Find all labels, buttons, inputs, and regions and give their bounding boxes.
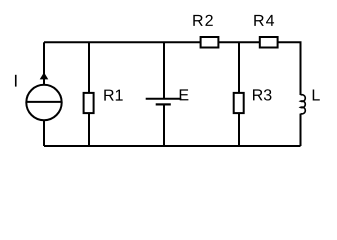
inductor L bbox=[301, 95, 306, 114]
wire: left branch, current source to bottom rail bbox=[43, 120, 45, 146]
wire: R1 branch, R1 to bottom rail bbox=[88, 114, 90, 147]
wire: bottom rail bbox=[44, 145, 301, 147]
wire: R1 branch, top rail to R1 bbox=[88, 42, 90, 92]
wire: E branch, top rail to battery bbox=[163, 42, 165, 99]
label I bbox=[15, 75, 17, 87]
resistor R1 bbox=[84, 93, 94, 113]
wire: E branch, battery to bottom rail bbox=[163, 104, 165, 146]
battery E long plate bbox=[146, 98, 182, 100]
battery E short plate bbox=[156, 103, 171, 105]
wire: left branch, top rail down to current source bbox=[43, 42, 45, 85]
label R2 bbox=[193, 15, 212, 26]
resistor R4 bbox=[260, 37, 278, 48]
current source I arrow bbox=[40, 72, 49, 79]
resistor R3 bbox=[234, 93, 244, 113]
wire: R3 branch, R3 to bottom rail bbox=[238, 114, 240, 147]
wire: L branch, inductor to bottom rail bbox=[300, 114, 302, 146]
current source I bbox=[26, 85, 61, 120]
wire: top rail, R2 right to R4 left bbox=[219, 41, 260, 43]
wire: R3 branch, top rail to R3 bbox=[238, 42, 240, 92]
label L bbox=[313, 89, 320, 100]
wire: top rail, R4 right to top-right corner, down to inductor L bbox=[278, 42, 301, 95]
wire: top rail, node A to R2 left bbox=[44, 41, 201, 43]
label E bbox=[180, 89, 189, 100]
label R1 bbox=[104, 90, 122, 101]
resistor R2 bbox=[201, 37, 219, 48]
label R4 bbox=[254, 15, 274, 26]
label R3 bbox=[253, 89, 271, 100]
